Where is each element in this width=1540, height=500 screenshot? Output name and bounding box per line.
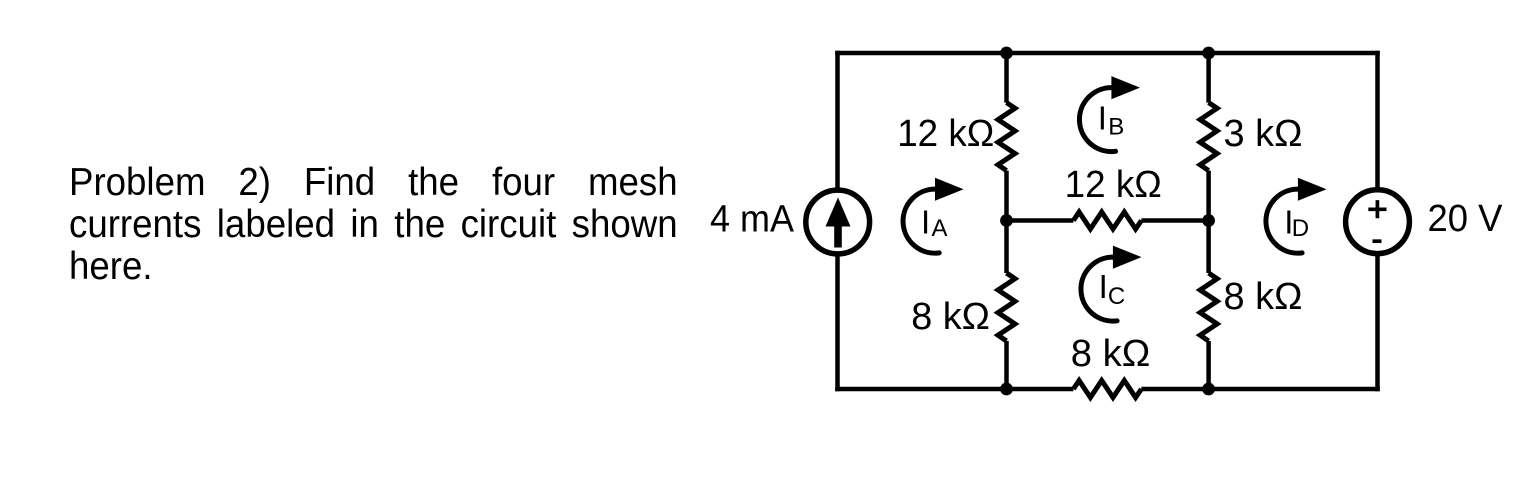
svg-text:8 kΩ: 8 kΩ xyxy=(911,296,990,338)
mesh current label ID xyxy=(1284,204,1309,243)
svg-text:8 kΩ: 8 kΩ xyxy=(1224,276,1303,318)
wire bottom right segment xyxy=(1141,387,1379,392)
wire top xyxy=(835,51,1380,56)
resistor R1 12 kohm vertical top-left xyxy=(998,103,1015,171)
mesh current label IC xyxy=(1099,268,1126,310)
voltage source V1 plus sign xyxy=(1368,200,1386,218)
wire mid-left vertical upper stub xyxy=(1004,53,1009,103)
resistor R3 12 kohm horizontal middle xyxy=(1073,212,1141,229)
svg-text:8 kΩ: 8 kΩ xyxy=(1071,333,1151,375)
svg-text:C: C xyxy=(1108,283,1125,310)
wire mid-left vertical lower stub xyxy=(1004,341,1009,389)
resistor R2 3 kohm vertical top-right xyxy=(1200,103,1217,171)
node bottom-right xyxy=(1202,383,1215,396)
resistor R6 8 kohm horizontal bottom xyxy=(1073,381,1141,398)
mesh current arrow ID head xyxy=(1298,178,1327,201)
node top-right xyxy=(1202,47,1215,60)
svg-text:D: D xyxy=(1292,215,1309,242)
current source I1 arrow xyxy=(826,198,851,248)
mesh current arrow IC arc xyxy=(1081,257,1117,321)
wire bottom left segment xyxy=(835,387,1073,392)
mesh current arrow IB head xyxy=(1111,76,1140,99)
svg-text:A: A xyxy=(932,215,948,242)
wire mid-right vertical lower stub xyxy=(1206,341,1211,389)
wire middle horizontal left segment xyxy=(1007,218,1074,223)
svg-text:I: I xyxy=(1099,268,1108,305)
svg-text:B: B xyxy=(1108,113,1124,140)
node mid-left xyxy=(1000,214,1013,227)
node top-left xyxy=(1000,47,1013,60)
mesh current arrow ID arc xyxy=(1266,189,1302,253)
svg-text:12 kΩ: 12 kΩ xyxy=(1065,164,1162,206)
svg-text:4 mA: 4 mA xyxy=(710,199,795,241)
svg-text:3 kΩ: 3 kΩ xyxy=(1224,113,1303,155)
current source I1 circle xyxy=(806,190,870,254)
svg-text:12 kΩ: 12 kΩ xyxy=(897,113,994,155)
mesh current arrow IA arc xyxy=(903,189,939,253)
mesh current arrow IB arc xyxy=(1079,88,1115,152)
svg-text:I: I xyxy=(1098,100,1107,137)
node bottom-left xyxy=(1000,383,1013,396)
mesh current label IA xyxy=(921,204,948,243)
mesh current label IB xyxy=(1098,100,1125,141)
voltage source V1 circle xyxy=(1346,190,1410,254)
node mid-right xyxy=(1202,214,1215,227)
wire right vertical (through voltage source) xyxy=(1375,51,1380,391)
mesh current arrow IA head xyxy=(935,178,964,201)
wire middle horizontal right segment xyxy=(1141,218,1208,223)
wire mid-left vertical center segment xyxy=(1004,171,1009,273)
voltage source V1 minus sign xyxy=(1373,239,1382,243)
resistor R5 8 kohm vertical bottom-right xyxy=(1200,273,1217,341)
wire mid-right vertical center segment xyxy=(1206,171,1211,273)
wire mid-right vertical upper stub xyxy=(1206,53,1211,103)
resistor R4 8 kohm vertical bottom-left xyxy=(998,273,1015,341)
mesh current arrow IC head xyxy=(1113,246,1142,269)
wire left vertical (through current source) xyxy=(835,51,840,391)
svg-text:20 V: 20 V xyxy=(1428,198,1504,240)
svg-text:I: I xyxy=(921,204,930,241)
